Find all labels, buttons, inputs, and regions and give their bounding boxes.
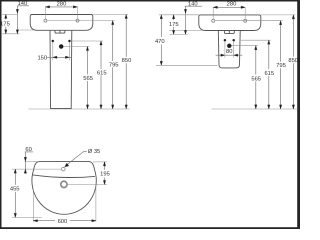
dim 80 R	[216, 42, 243, 58]
svg-text:140: 140	[18, 1, 28, 7]
dim 455 plan	[10, 169, 62, 217]
tap hole plan	[62, 167, 66, 171]
svg-text:150: 150	[37, 55, 47, 61]
ext line tap level R	[215, 20, 283, 22]
tap hole R left	[212, 19, 215, 22]
svg-text:565: 565	[83, 76, 93, 82]
dim 280 R	[213, 1, 245, 19]
dim 60 plan	[24, 147, 33, 173]
trap tab R	[224, 31, 234, 34]
tap hole R right	[244, 19, 247, 22]
waste ring plan outer	[61, 181, 67, 187]
ext line waste level R	[232, 45, 258, 47]
svg-text:615: 615	[97, 70, 107, 76]
dim 470 R	[155, 15, 218, 66]
basin L	[30, 15, 93, 31]
semi-pedestal R	[218, 31, 240, 68]
svg-text:850: 850	[122, 58, 132, 64]
dim 795 R	[276, 21, 286, 109]
pedestal L	[50, 30, 72, 108]
frame border	[0, 0, 300, 2]
dim 280 L	[45, 2, 77, 19]
dim 850 R	[288, 15, 298, 109]
trap tab L	[55, 30, 65, 33]
basin R	[199, 15, 261, 31]
dim 140 R	[184, 1, 202, 34]
ext line fixing level L	[71, 40, 103, 42]
ext line fixing level R	[241, 39, 271, 41]
svg-text:850: 850	[288, 58, 298, 64]
fixing dot R right	[233, 39, 235, 41]
svg-text:470: 470	[155, 39, 165, 45]
svg-text:615: 615	[264, 71, 274, 77]
ext line waste level L	[63, 46, 89, 48]
fixing dot L left	[52, 40, 54, 42]
svg-text:565: 565	[251, 76, 261, 82]
svg-text:455: 455	[10, 187, 20, 193]
ext line rim level R	[261, 14, 296, 16]
svg-text:Ø 35: Ø 35	[88, 149, 101, 155]
tap hole L left	[44, 19, 47, 22]
ext line rim level L	[93, 14, 128, 16]
floor line R	[212, 108, 298, 110]
floor line L	[29, 108, 130, 110]
ext line tap level L	[47, 20, 115, 22]
svg-text:280: 280	[227, 1, 237, 7]
dim 615 L	[97, 41, 107, 109]
svg-text:60: 60	[25, 147, 31, 153]
waste ring plan inner	[62, 182, 66, 186]
fixing dot R left	[224, 39, 226, 41]
basin outline plan	[32, 162, 96, 215]
dim 565 R	[251, 46, 261, 109]
dim 600 plan	[33, 186, 96, 226]
dim 140 L	[16, 1, 29, 34]
inner rim line plan	[33, 175, 95, 178]
svg-text:600: 600	[58, 219, 68, 225]
svg-text:795: 795	[276, 63, 286, 69]
waste dot R	[227, 44, 231, 48]
dim 150 L	[37, 42, 71, 61]
dim 175 R	[159, 15, 199, 35]
tap hole L right	[76, 19, 79, 22]
dim 195 plan	[68, 162, 110, 185]
svg-text:175: 175	[0, 22, 10, 28]
dim Ø35 leader	[65, 149, 101, 167]
svg-text:795: 795	[109, 62, 119, 68]
svg-text:195: 195	[100, 172, 110, 178]
dim 850 L	[122, 15, 132, 109]
dim 565 L	[83, 47, 93, 109]
dim 795 L	[109, 21, 119, 109]
dim 175 L	[0, 14, 19, 33]
dim 615 R	[264, 40, 274, 109]
fixing dot L right	[68, 40, 70, 42]
waste dot L	[59, 44, 63, 48]
svg-text:80: 80	[226, 49, 232, 55]
svg-text:175: 175	[169, 22, 179, 28]
